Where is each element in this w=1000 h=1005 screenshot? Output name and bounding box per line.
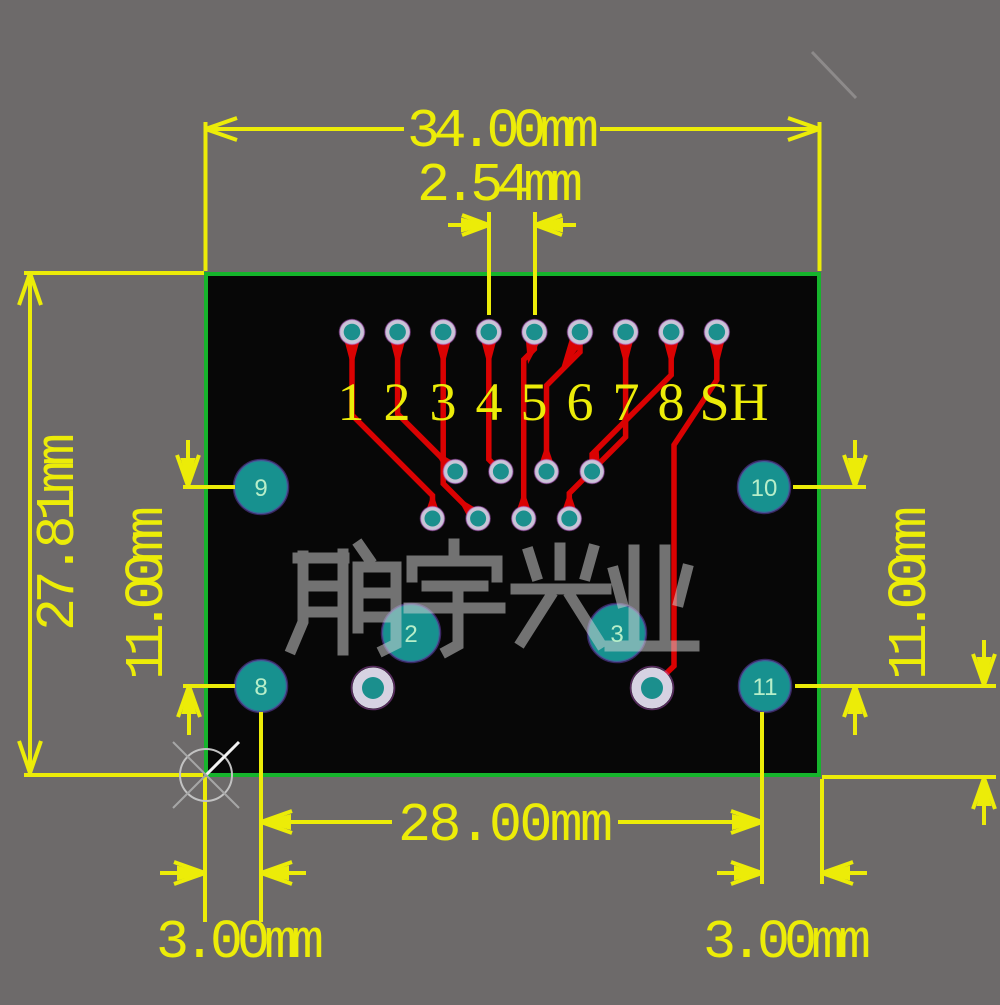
wire pin7 to pad L4 (569, 336, 625, 519)
pin labels 1-8 SH (338, 372, 769, 432)
dim 28.00mm line (261, 820, 392, 824)
char yu (449, 544, 460, 558)
svg-text:10: 10 (751, 475, 778, 502)
pad 11 (739, 660, 791, 712)
dim 3.00mm right arrows (717, 871, 761, 875)
pad pin7 (613, 320, 638, 345)
svg-text:2: 2 (404, 621, 417, 648)
pad pin6 (568, 320, 593, 345)
wire SH to shield hole (652, 336, 717, 687)
pad L4 (557, 507, 581, 531)
pad pin5 (522, 320, 547, 345)
PCB green border (206, 274, 819, 775)
svg-text:4: 4 (476, 372, 503, 432)
PCB board body (206, 274, 819, 775)
char xing (529, 553, 536, 575)
pad pin8 (659, 320, 684, 345)
svg-text:8: 8 (254, 674, 267, 701)
pad L1 (421, 507, 445, 531)
svg-text:27.81mm: 27.81mm (27, 433, 90, 631)
pad L3 (512, 507, 536, 531)
svg-text:1: 1 (338, 372, 365, 432)
dim 3.00mm left arrows (160, 871, 204, 875)
svg-text:3: 3 (430, 372, 457, 432)
dim right gap arrows (982, 640, 986, 684)
svg-text:8: 8 (658, 372, 685, 432)
pad L2 (466, 507, 490, 531)
dim 27.81mm vertical line (28, 273, 32, 773)
dim 11.00mm left bottom arrow (187, 687, 191, 735)
pad 9 (234, 460, 288, 514)
pad U2 (489, 460, 513, 484)
dim 28.00mm extension lines (203, 777, 207, 922)
pad 2 (382, 604, 440, 662)
watermark 鹏宇兴业 (292, 544, 694, 651)
dim 34.00mm line (206, 127, 405, 131)
char peng left part (292, 556, 303, 648)
svg-text:11.00mm: 11.00mm (116, 506, 179, 680)
dim 27.81mm reference lines (24, 271, 204, 275)
origin crosshair (173, 742, 239, 808)
pad pin3 (431, 320, 456, 345)
wire pin8 to pad U4 (592, 336, 671, 472)
pad 3 (588, 604, 646, 662)
wire pin6 to pad U3 (547, 336, 581, 472)
char ye (629, 550, 640, 641)
wire pin5 to pad L3 (524, 336, 535, 519)
pad pin4 (476, 320, 501, 345)
pad U4 (580, 460, 604, 484)
dim 11.00mm right top arrow (853, 440, 857, 485)
svg-text:3.00mm: 3.00mm (703, 911, 871, 974)
pad U3 (535, 460, 559, 484)
hole H1 (352, 667, 395, 710)
pad SH (704, 320, 729, 345)
svg-text:2.54mm: 2.54mm (417, 154, 583, 217)
wire pin3 to pad L2 (443, 336, 478, 519)
wire pin1 to pad L1 (352, 336, 433, 516)
dim 11.00mm right bottom arrow (853, 687, 857, 735)
pad 8 (235, 660, 287, 712)
dim 2.54mm arrows (448, 223, 489, 227)
char peng right part (360, 546, 369, 559)
scratch artifact top right (812, 52, 856, 98)
hole H2 (631, 667, 674, 710)
svg-text:6: 6 (567, 372, 594, 432)
svg-text:SH: SH (699, 372, 768, 432)
svg-text:5: 5 (521, 372, 548, 432)
svg-text:9: 9 (254, 475, 267, 502)
svg-text:3: 3 (610, 621, 623, 648)
pad 10 (738, 461, 790, 513)
dim 34.00mm extension lines (204, 122, 208, 271)
wire pin4 to pad U2 (489, 336, 501, 472)
pad pin2 (385, 320, 410, 345)
wire pin2 to pad U1 (398, 336, 456, 472)
svg-text:28.00mm: 28.00mm (398, 794, 613, 857)
pad U1 (443, 460, 467, 484)
svg-text:11: 11 (753, 674, 778, 701)
dim 2.54mm extension lines (487, 212, 491, 315)
svg-text:11.00mm: 11.00mm (879, 506, 942, 680)
svg-text:2: 2 (384, 372, 411, 432)
pad pin1 (340, 320, 365, 345)
svg-text:3.00mm: 3.00mm (156, 911, 324, 974)
dim 11.00mm left top arrow (186, 440, 190, 485)
svg-text:7: 7 (613, 372, 640, 432)
